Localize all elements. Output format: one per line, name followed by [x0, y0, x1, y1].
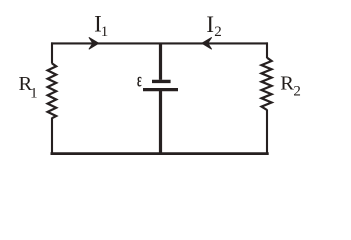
- svg-text:R: R: [280, 73, 294, 95]
- battery lower lead: [159, 90, 162, 154]
- arrow current I2 (points left): [202, 37, 212, 49]
- wire bottom conductor: [51, 152, 269, 155]
- battery long plate (bottom): [143, 88, 178, 91]
- wire left vertical bottom segment: [51, 118, 53, 155]
- resistor R1 zigzag: [48, 63, 57, 118]
- svg-text:1: 1: [101, 24, 109, 40]
- battery short plate (top): [152, 80, 171, 83]
- resistor R2 zigzag: [262, 58, 272, 110]
- svg-text:1: 1: [30, 85, 37, 101]
- wire right vertical bottom segment: [266, 110, 268, 155]
- arrow current I1 (points right): [89, 37, 99, 49]
- wire right vertical top segment: [266, 42, 268, 58]
- battery EMF source: upper lead: [159, 43, 162, 80]
- svg-text:ε: ε: [137, 70, 142, 91]
- svg-text:2: 2: [293, 84, 301, 100]
- wire top conductor: [51, 42, 268, 44]
- wire left vertical top segment: [51, 42, 53, 63]
- svg-text:2: 2: [214, 24, 222, 40]
- svg-text:I: I: [206, 12, 214, 37]
